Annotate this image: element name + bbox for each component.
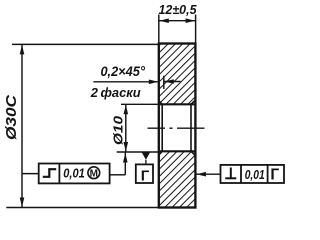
left FCF leader horizontal [110, 174, 126, 176]
left FCF divider [58, 164, 60, 184]
part outline [159, 44, 196, 208]
left FCF frame [39, 164, 110, 184]
left FCF connector to Ø30 dimension line [22, 173, 39, 175]
dimension Ø30C extension line top [12, 43, 159, 45]
chamfer edge left [161, 104, 163, 151]
right FCF frame [221, 165, 285, 183]
datum triangle [142, 153, 150, 160]
datum stem [145, 160, 147, 165]
chamfer note arrow at face [149, 80, 159, 85]
dimension Ø10 extension line bottom (datum line) [117, 151, 159, 153]
svg-text:Г: Г [270, 167, 279, 184]
chamfer size arrow [164, 79, 174, 84]
svg-text:12±0,5: 12±0,5 [159, 2, 198, 17]
chamfer size extension line [163, 76, 165, 89]
chamfer edge right [190, 104, 192, 151]
right FCF leader [196, 173, 220, 175]
dimension Ø30C arrow top [20, 45, 25, 55]
left FCF tolerance symbol (step) [43, 169, 56, 177]
chamfer note leader line [93, 81, 157, 83]
dimension 12±0,5 extension line right [195, 15, 197, 44]
svg-text:Г: Г [141, 167, 150, 184]
svg-text:0,01: 0,01 [63, 165, 85, 180]
dimension Ø30C extension line bottom [6, 207, 159, 209]
dimension Ø10 arrow bottom [124, 142, 129, 152]
chamfer diagonal top-left [159, 101, 162, 105]
datum frame box [136, 164, 153, 183]
svg-text:Ø30C: Ø30C [3, 94, 20, 140]
hole top wall [159, 103, 196, 105]
dimension Ø10 arrow top [124, 105, 129, 115]
centerline [148, 127, 205, 129]
section hatch upper block [159, 44, 196, 105]
chamfer diagonal top-right [191, 100, 195, 104]
dimension Ø10 line [125, 104, 127, 152]
svg-text:0,01: 0,01 [245, 167, 265, 182]
dimension 12±0,5 extension line left [158, 15, 160, 44]
right FCF divider 2 [267, 165, 269, 183]
svg-text:Ø10: Ø10 [110, 115, 125, 145]
dimension 12±0,5 arrow right [186, 18, 196, 23]
svg-text:М: М [90, 168, 98, 179]
dimension 12±0,5 line [159, 20, 196, 22]
chamfer diagonal bottom-left [159, 151, 162, 155]
svg-text:0,2×45°: 0,2×45° [100, 64, 145, 79]
left FCF modifier circle M [88, 167, 100, 179]
right FCF leader arrow [196, 172, 206, 177]
hole bottom wall [159, 150, 196, 152]
chamfer diagonal bottom-right [191, 151, 195, 155]
dimension Ø30C line [21, 44, 23, 207]
dimension 12±0,5 arrow left [159, 18, 169, 23]
left FCF leader arrow up [123, 153, 128, 163]
right FCF perpendicularity symbol [230, 168, 232, 179]
dimension Ø30C arrow bottom [20, 198, 25, 208]
right FCF divider 1 [240, 165, 242, 183]
left FCF leader vertical [124, 153, 126, 175]
dimension Ø10 extension line top [121, 103, 159, 105]
section hatch lower block [159, 151, 196, 207]
svg-text:2 фаски: 2 фаски [90, 85, 141, 100]
chamfer size arrow tail [164, 81, 181, 83]
